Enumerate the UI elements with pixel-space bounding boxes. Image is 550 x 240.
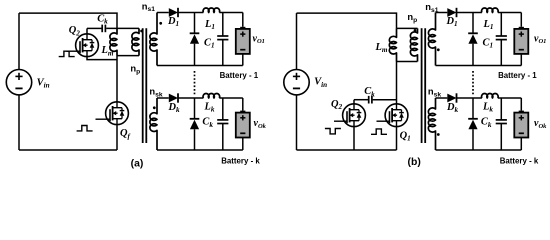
- svg-text:vOk: vOk: [254, 118, 267, 130]
- battery V_Ok: [242, 98, 244, 111]
- svg-text:Battery - k: Battery - k: [221, 156, 260, 165]
- wire: top wire from Dk to L coil stage k: [457, 97, 482, 99]
- svg-text:Qf: Qf: [120, 128, 131, 140]
- svg-text:Q2: Q2: [69, 25, 81, 37]
- svg-text:Vin: Vin: [314, 77, 327, 89]
- capacitor Ck clamp (b): [368, 96, 370, 104]
- svg-text:vO1: vO1: [253, 33, 265, 45]
- polarity dot nsk: [153, 106, 156, 109]
- wire: primary top row (b): [397, 27, 418, 29]
- winding np primary (a): [132, 28, 139, 55]
- gate pulse of Q2 inverted (b): [325, 129, 341, 134]
- gate pulse of Q1 (b): [371, 129, 387, 134]
- winding nsk secondary: [150, 98, 157, 150]
- svg-text:Lk: Lk: [482, 102, 493, 114]
- inductor Lm magnetizing (a): [110, 28, 117, 55]
- freewheeling diode stage 1: [194, 13, 196, 34]
- svg-text:Q2: Q2: [331, 99, 343, 111]
- wire: top wire from Lk to battery stage k: [219, 97, 243, 99]
- capacitor C1 output filter: [222, 13, 224, 37]
- diode Dk series: [447, 94, 456, 103]
- diode Dk series: [169, 94, 178, 103]
- wire: left rail of (b): [296, 13, 298, 69]
- svg-text:Dk: Dk: [446, 102, 459, 114]
- wire: clamp row with Ck (b): [354, 99, 368, 101]
- wire: primary bottom to Q1 drain (b): [396, 62, 398, 104]
- voltage source Vin (b): [284, 70, 309, 95]
- wire: secondary top wire stage 1: [157, 12, 169, 14]
- winding ns1 secondary: [428, 13, 435, 66]
- capacitor Ck clamp (a): [101, 25, 103, 33]
- svg-text:np: np: [130, 63, 140, 76]
- svg-text:(b): (b): [408, 157, 421, 168]
- transistor Q2 (b): [353, 100, 355, 104]
- freewheeling diode stage k: [472, 98, 474, 119]
- wire: Q2 source to switch node (a): [87, 57, 117, 60]
- wire: Q1 source to bottom rail (b): [396, 127, 398, 151]
- wire: primary bottom row (b): [397, 61, 418, 63]
- freewheeling diode stage k: [194, 98, 196, 119]
- wire: top rail of (b): [297, 13, 397, 28]
- svg-text:Ck: Ck: [202, 117, 213, 129]
- winding ns1 secondary: [150, 13, 157, 66]
- diode D1 series: [169, 8, 178, 17]
- wire: left rail of (a): [18, 13, 20, 69]
- wire: switch node vertical to Qf drain (a): [116, 56, 118, 102]
- transistor Q1 (b): [385, 104, 408, 127]
- svg-text:C1: C1: [204, 37, 215, 49]
- capacitor C1 output filter: [500, 13, 502, 37]
- wire: top wire from L1 to battery stage 1: [498, 12, 522, 14]
- svg-text:ns1: ns1: [425, 1, 438, 14]
- wire: clamp row from Q2 drain to n_p top (a): [87, 27, 102, 29]
- svg-text:Ck: Ck: [481, 117, 492, 129]
- polarity dot ns1: [437, 48, 440, 51]
- battery V_O1: [242, 13, 244, 27]
- capacitor Ck output filter: [500, 98, 502, 120]
- svg-text:L1: L1: [483, 19, 494, 31]
- diode D1 series: [447, 8, 456, 17]
- wire: primary bottom row (a): [117, 55, 139, 57]
- polarity dot np (b): [414, 29, 417, 32]
- svg-text:Vin: Vin: [37, 77, 50, 89]
- inductor Lm magnetizing (b): [389, 28, 396, 61]
- svg-text:Lk: Lk: [204, 102, 215, 114]
- svg-text:vOk: vOk: [534, 118, 547, 130]
- svg-text:Dk: Dk: [167, 102, 180, 114]
- wire: stage 1 bottom rail: [157, 65, 243, 67]
- transistor Qf main switch (a): [106, 102, 129, 125]
- winding nsk secondary: [428, 98, 435, 150]
- gate pulse of Qf (a): [77, 126, 93, 131]
- wire: secondary top wire stage k: [436, 97, 448, 99]
- wire: stage 1 bottom rail: [436, 65, 522, 67]
- voltage source Vin (a): [6, 70, 31, 95]
- polarity dot nsk: [437, 133, 440, 136]
- wire: top wire from D1 to L coil stage 1: [178, 12, 203, 14]
- freewheeling diode stage 1: [472, 13, 474, 34]
- dotted continuation line (b): [472, 71, 474, 95]
- svg-text:Ck: Ck: [364, 86, 375, 98]
- wire: secondary top wire stage k: [157, 97, 169, 99]
- svg-text:Lm: Lm: [101, 45, 114, 57]
- capacitor Ck output filter: [222, 98, 224, 120]
- wire: Q2 drain stub (a): [86, 28, 88, 34]
- svg-text:vO1: vO1: [534, 33, 546, 45]
- gate pulse of Q2 (a): [59, 51, 75, 56]
- wire: top wire from D1 to L coil stage 1: [457, 12, 482, 14]
- wire: Qf source to bottom rail (a): [116, 125, 118, 150]
- svg-text:D1: D1: [445, 16, 457, 28]
- svg-text:Ck: Ck: [97, 14, 108, 26]
- inductor L1 filter: [203, 8, 220, 12]
- transformer core (a): [142, 28, 144, 143]
- polarity dot np (a): [140, 30, 143, 33]
- wire: stage k bottom rail: [157, 149, 243, 151]
- transformer core (b): [421, 28, 423, 143]
- svg-text:C1: C1: [483, 37, 494, 49]
- svg-text:nsk: nsk: [149, 86, 162, 99]
- dotted continuation line (a): [194, 71, 196, 95]
- inductor Lk filter: [203, 94, 220, 98]
- polarity dot ns1: [159, 22, 162, 25]
- battery V_Ok: [520, 98, 522, 111]
- svg-text:Battery - 1: Battery - 1: [220, 71, 259, 80]
- wire: secondary top wire stage 1: [436, 12, 448, 14]
- svg-text:Battery - k: Battery - k: [500, 156, 539, 165]
- wire: top wire from L1 to battery stage 1: [219, 12, 243, 14]
- inductor Lk filter: [482, 94, 499, 98]
- svg-text:D1: D1: [167, 16, 179, 28]
- wire: top rail of (a): [19, 13, 117, 28]
- svg-text:Q1: Q1: [400, 130, 411, 142]
- svg-text:ns1: ns1: [142, 0, 155, 13]
- svg-text:np: np: [407, 11, 417, 24]
- wire: Q2 source to bottom rail (b): [353, 127, 355, 151]
- svg-text:L1: L1: [204, 19, 215, 31]
- wire: top wire from Dk to L coil stage k: [178, 97, 203, 99]
- battery V_O1: [520, 13, 522, 27]
- wire: stage k bottom rail: [436, 149, 522, 151]
- svg-text:(a): (a): [131, 159, 144, 170]
- winding np primary (b): [410, 28, 417, 61]
- svg-text:Battery - 1: Battery - 1: [498, 71, 537, 80]
- wire: top wire from Lk to battery stage k: [498, 97, 522, 99]
- svg-text:nsk: nsk: [428, 86, 441, 99]
- inductor L1 filter: [482, 8, 499, 12]
- op Q2 body (a): [76, 34, 99, 57]
- svg-text:Lm: Lm: [375, 42, 388, 54]
- wire: bottom rail of (a): [19, 149, 117, 151]
- wire: bottom rail of (b): [297, 149, 397, 151]
